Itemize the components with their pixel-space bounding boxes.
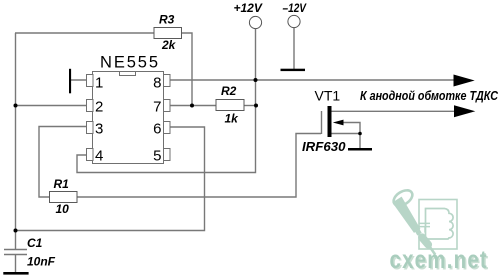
svg-text:5: 5 (153, 148, 161, 165)
svg-text:+12V: +12V (234, 1, 263, 15)
svg-text:IRF630: IRF630 (302, 139, 346, 154)
svg-text:10: 10 (56, 202, 70, 216)
svg-text:R3: R3 (159, 13, 175, 27)
svg-text:NE555: NE555 (100, 54, 160, 72)
svg-text:C1: C1 (27, 236, 43, 250)
svg-text:3: 3 (95, 120, 103, 137)
svg-text:R1: R1 (54, 177, 70, 191)
svg-text:1k: 1k (225, 112, 240, 126)
svg-text:7: 7 (153, 99, 161, 116)
svg-text:К анодной обмотке ТДКС: К анодной обмотке ТДКС (360, 88, 498, 103)
svg-text:–12V: –12V (283, 1, 307, 15)
svg-text:2: 2 (95, 99, 103, 116)
svg-text:cxem.net: cxem.net (390, 245, 488, 273)
svg-text:4: 4 (95, 148, 103, 165)
svg-text:10nF: 10nF (27, 255, 56, 269)
svg-text:R2: R2 (221, 84, 237, 98)
svg-text:6: 6 (153, 120, 161, 137)
svg-text:8: 8 (153, 75, 161, 92)
svg-text:1: 1 (95, 75, 103, 92)
svg-text:VT1: VT1 (315, 88, 341, 104)
svg-text:2k: 2k (161, 38, 177, 52)
